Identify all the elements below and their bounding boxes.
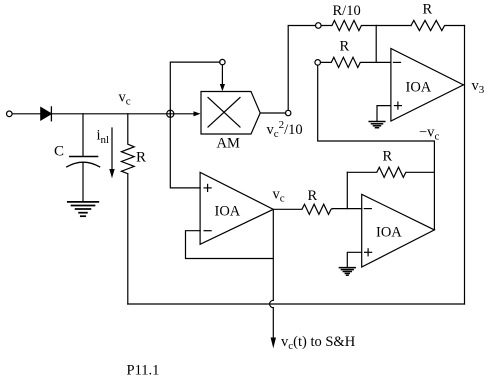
svg-text:P11.1: P11.1	[127, 363, 160, 379]
svg-text:C: C	[54, 144, 64, 160]
op-amp U2 IOA mid right	[362, 194, 435, 267]
svg-text:R: R	[383, 149, 393, 165]
wire input to diode	[12, 113, 41, 115]
svg-text:inl: inl	[97, 128, 110, 147]
wire vertical below hop with arrow v_c(t)	[271, 308, 276, 349]
resistor R2 top right	[411, 20, 465, 30]
svg-text:IOA: IOA	[406, 80, 432, 96]
svg-text:vc(t) to S&H: vc(t) to S&H	[281, 334, 356, 352]
svg-text:AM: AM	[217, 136, 240, 152]
wire hop over bottom rail	[270, 300, 274, 307]
wire U1 plus to ground	[377, 106, 391, 122]
terminal v_c^2/10	[286, 110, 291, 115]
wire -v_c net: terminal down, right, down to U2 apex	[318, 65, 435, 230]
op-amp U3 IOA left	[200, 172, 273, 244]
svg-text:R: R	[340, 39, 350, 55]
diode D1	[41, 107, 52, 121]
current arrow i_nl	[109, 128, 114, 178]
terminal R/10 left	[316, 23, 322, 29]
resistor R4 feedback U2	[347, 167, 434, 177]
wire node up to AM top terminal	[170, 62, 219, 117]
wire R1 bottom down to bottom rail	[127, 174, 129, 304]
wire arrow down into AM top	[220, 65, 225, 92]
wire U3 output vertical down to hop	[272, 259, 274, 301]
resistor R1 left vertical	[121, 114, 134, 174]
svg-text:vc2/10: vc2/10	[267, 119, 303, 140]
ground below C	[68, 202, 99, 216]
svg-text:vc: vc	[273, 187, 285, 205]
input terminal	[7, 111, 13, 117]
wire AM output to terminal	[260, 112, 285, 114]
wire v_c rail: diode to AM input arrow	[51, 113, 194, 115]
resistor R5 between v_c and U2	[273, 204, 332, 214]
wire R/10 to R2	[376, 25, 411, 27]
svg-text:R: R	[423, 2, 433, 18]
svg-text:vc: vc	[119, 90, 131, 108]
wire U2 plus to ground	[347, 252, 361, 267]
resistor R3 mid	[321, 57, 391, 67]
wire junction vertical R/10 to minus line	[375, 26, 377, 63]
multiplier AM	[201, 92, 260, 135]
wire bottom rail	[128, 303, 465, 305]
resistor R/10	[321, 20, 376, 30]
svg-text:R: R	[136, 150, 146, 166]
ground below U1	[369, 122, 385, 128]
svg-text:IOA: IOA	[376, 225, 402, 241]
wire right edge vertical v3 to bottom	[464, 26, 466, 305]
svg-text:R: R	[308, 188, 318, 204]
svg-text:v3: v3	[472, 78, 485, 96]
svg-text:−vc: −vc	[419, 125, 439, 143]
svg-text:IOA: IOA	[215, 204, 241, 220]
ground below U2	[339, 268, 355, 276]
arrowhead into AM	[194, 111, 201, 116]
terminal AM top	[220, 59, 225, 64]
svg-text:R/10: R/10	[333, 3, 361, 19]
wire U1 output to right edge	[463, 84, 464, 86]
wire minus input line U2	[332, 208, 361, 210]
op-amp U1 IOA top right	[391, 49, 464, 122]
wire U3 feedback loop	[186, 209, 274, 258]
wire terminal up to R/10 line	[288, 26, 315, 111]
node v_c circle	[167, 110, 174, 117]
wire feedback left vertical to minus wire	[346, 172, 348, 208]
terminal R3 left	[315, 60, 321, 66]
wire node down to IOA1 plus input	[170, 110, 200, 188]
capacitor C	[67, 114, 100, 202]
